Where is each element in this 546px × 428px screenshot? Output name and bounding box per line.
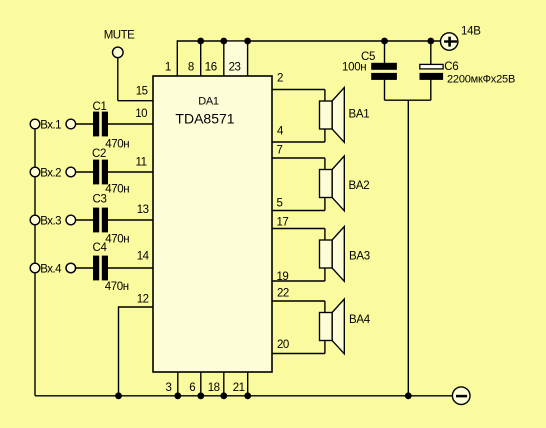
svg-text:100н: 100н (342, 62, 366, 74)
wire: pin 17 lead (272, 228, 325, 230)
terminal: MUTE (113, 47, 124, 58)
wire: pin 22 lead (272, 300, 325, 302)
svg-text:2200мкФх25В: 2200мкФх25В (447, 73, 515, 85)
wire: pin 15 lead (118, 100, 153, 102)
svg-text:2: 2 (277, 72, 283, 84)
svg-text:C1: C1 (93, 101, 107, 113)
svg-text:Вх.1: Вх.1 (40, 120, 61, 132)
wire: pin 3 stub (177, 372, 179, 396)
wire: BA3 bottom stub (324, 268, 326, 281)
svg-text:3: 3 (165, 382, 171, 394)
svg-text:DA1: DA1 (198, 96, 219, 108)
svg-text:470н: 470н (105, 234, 129, 246)
wire: pin 4 lead (272, 141, 325, 143)
svg-text:13: 13 (137, 204, 149, 216)
svg-text:C2: C2 (92, 148, 106, 160)
terminal: input 1 signal (66, 119, 76, 129)
svg-text:Вх.2: Вх.2 (40, 168, 61, 180)
capacitor C6 (electrolytic) (420, 64, 444, 80)
pin column highlight (225, 42, 247, 76)
wire: input 2 to C2 (76, 171, 93, 173)
svg-text:C6: C6 (444, 61, 458, 73)
wire: BA2 bottom stub (324, 198, 326, 211)
wire: pin 12 vertical (118, 306, 120, 396)
wire: BA4 top stub (324, 301, 326, 314)
wire: input 1 to C1 (76, 123, 93, 125)
wire: input 4 to C4 (76, 267, 93, 269)
speaker BA4 (320, 299, 345, 354)
power terminal +14V (441, 33, 458, 50)
svg-text:6: 6 (189, 382, 195, 394)
svg-text:14: 14 (137, 251, 150, 263)
svg-text:BA2: BA2 (349, 180, 370, 192)
svg-text:C3: C3 (93, 194, 107, 206)
wire: pin 7 lead (272, 157, 325, 159)
terminal: input 1 ground (30, 119, 40, 129)
wire: C4 to pin 14 (108, 267, 153, 269)
svg-text:18: 18 (208, 382, 220, 394)
svg-text:12: 12 (137, 294, 149, 306)
node: junction supply return on ground bus (405, 392, 412, 399)
svg-text:19: 19 (277, 271, 289, 283)
wire: pin 2 lead (272, 89, 325, 91)
svg-text:470н: 470н (105, 184, 129, 196)
svg-text:16: 16 (205, 61, 217, 73)
node: junction pin 6 on ground bus (197, 392, 204, 399)
node: junction C5 on bus (381, 38, 388, 45)
terminal: input 3 signal (66, 215, 76, 225)
svg-text:8: 8 (188, 61, 194, 73)
capacitor C2 (93, 160, 108, 185)
wire: supply return vertical (407, 100, 409, 396)
wire: capacitor bottom connector (385, 99, 431, 101)
svg-text:21: 21 (233, 382, 245, 394)
speaker BA2 (320, 156, 345, 211)
node: junction pin 21 on ground bus (244, 392, 251, 399)
svg-text:BA4: BA4 (349, 314, 371, 326)
node: junction pin 12 on ground bus (115, 392, 122, 399)
wire: C6 bottom lead (430, 80, 432, 101)
svg-text:7: 7 (277, 144, 283, 156)
wire: MUTE vertical (117, 58, 119, 101)
wire: pin 6 stub (200, 372, 202, 396)
svg-text:5: 5 (277, 198, 283, 210)
wire: pin 1 stub (176, 40, 178, 76)
power terminal minus (452, 387, 470, 405)
capacitor C5 (371, 63, 397, 80)
wire: C1 to pin 10 (108, 123, 153, 125)
node: junction pin 8 on bus (197, 38, 204, 45)
wire: BA3 top stub (324, 229, 326, 242)
speaker BA1 (320, 88, 345, 143)
svg-text:14В: 14В (461, 25, 481, 37)
capacitor C4 (93, 256, 108, 281)
wire: C2 to pin 11 (108, 171, 153, 173)
svg-text:1: 1 (165, 61, 171, 73)
wire: pin 19 lead (272, 280, 325, 282)
node: junction pin 3 on ground bus (174, 392, 181, 399)
terminal: input 3 ground (30, 215, 40, 225)
svg-text:470н: 470н (105, 139, 129, 151)
svg-text:23: 23 (229, 61, 241, 73)
op-amp IC DA1 TDA8571 body (153, 76, 272, 372)
terminal: input 4 ground (30, 263, 40, 273)
svg-text:TDA8571: TDA8571 (175, 111, 234, 127)
svg-text:Вх.4: Вх.4 (40, 264, 62, 276)
terminal: input 4 signal (66, 263, 76, 273)
wire: pin 23 stub (247, 41, 249, 76)
wire: pin 16 stub (223, 41, 225, 76)
wire: input ground rail (34, 124, 36, 396)
svg-text:BA3: BA3 (349, 250, 370, 262)
capacitor C3 (93, 208, 108, 233)
wire: pin 12 horizontal (119, 306, 154, 308)
svg-text:20: 20 (277, 339, 289, 351)
svg-text:11: 11 (136, 157, 147, 169)
wire: input 3 to C3 (76, 219, 93, 221)
svg-text:Вх.3: Вх.3 (40, 216, 61, 228)
wire: pin 18 stub (223, 372, 225, 396)
wire: C5 bottom lead (384, 80, 386, 101)
speaker BA3 (320, 227, 345, 282)
terminal: input 2 ground (30, 167, 40, 177)
svg-text:C4: C4 (93, 242, 108, 254)
svg-text:470н: 470н (105, 281, 129, 293)
svg-text:22: 22 (277, 288, 289, 300)
wire: ground bus (35, 395, 453, 397)
wire: pin 21 stub (247, 372, 249, 396)
node: junction pin 18 on ground bus (220, 392, 227, 399)
svg-text:17: 17 (277, 217, 289, 229)
terminal: input 2 signal (66, 167, 76, 177)
node: junction pin 16 on bus (220, 38, 227, 45)
wire: pin 5 lead (272, 210, 325, 212)
wire: BA1 bottom stub (324, 129, 326, 142)
wire: BA1 top stub (324, 90, 326, 103)
wire: top supply bus (177, 40, 440, 42)
node: junction pin 23 on bus (244, 38, 251, 45)
wire: pin 20 lead (272, 353, 325, 355)
svg-text:15: 15 (136, 86, 148, 98)
node: junction C6 on bus (427, 38, 434, 45)
svg-text:10: 10 (135, 108, 147, 120)
wire: C6 top lead (430, 41, 432, 65)
wire: C5 top lead (384, 41, 386, 64)
wire: BA4 bottom stub (324, 341, 326, 354)
capacitor C1 (93, 112, 108, 137)
svg-text:BA1: BA1 (349, 108, 370, 120)
wire: pin 8 stub (200, 41, 202, 76)
svg-text:MUTE: MUTE (104, 30, 135, 42)
wire: BA2 top stub (324, 158, 326, 171)
wire: C3 to pin 13 (108, 219, 153, 221)
